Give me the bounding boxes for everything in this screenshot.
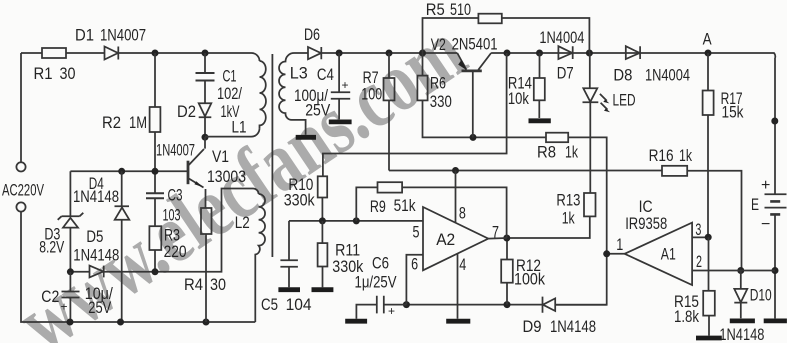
svg-text:R9: R9 xyxy=(370,197,386,216)
resistor R7 xyxy=(388,53,390,78)
svg-text:330: 330 xyxy=(430,92,452,111)
diode D4 xyxy=(115,171,130,322)
svg-text:6: 6 xyxy=(411,255,418,274)
capacitor C5 xyxy=(280,221,298,287)
svg-text:L1: L1 xyxy=(232,118,247,137)
svg-text:+: + xyxy=(342,78,349,92)
resistor R12 xyxy=(506,238,508,260)
op-amp A2 xyxy=(423,207,488,270)
resistor R11 xyxy=(321,221,323,243)
svg-text:D8: D8 xyxy=(613,65,632,84)
transistor V1 xyxy=(187,161,190,185)
diode D8 xyxy=(626,46,640,59)
svg-text:220: 220 xyxy=(164,242,187,261)
svg-text:D2: D2 xyxy=(177,102,196,121)
node junction battery/pin2 xyxy=(772,267,779,274)
svg-text:5: 5 xyxy=(413,223,420,242)
svg-text:2: 2 xyxy=(696,252,702,271)
ground R15 xyxy=(696,336,722,341)
svg-text:−: − xyxy=(761,216,770,233)
svg-text:+: + xyxy=(761,177,770,194)
svg-text:R1: R1 xyxy=(34,64,53,83)
wire R17 to pin3 xyxy=(707,115,709,237)
svg-text:IR9358: IR9358 xyxy=(625,214,667,233)
LED arrows xyxy=(600,94,608,110)
svg-text:30: 30 xyxy=(210,275,226,294)
wire D5 net y271.8 xyxy=(70,189,258,272)
node junction top rail x155 xyxy=(152,50,159,57)
ground R11 xyxy=(312,287,334,292)
svg-text:1N4004: 1N4004 xyxy=(539,28,584,47)
svg-text:R5: R5 xyxy=(426,0,445,19)
resistor R3 xyxy=(149,226,161,250)
svg-text:R16: R16 xyxy=(649,146,674,165)
svg-text:E: E xyxy=(751,195,759,214)
resistor R15 xyxy=(708,237,710,291)
wire pin3 xyxy=(692,236,708,238)
node A junction xyxy=(705,50,712,57)
wire B: R10 top to pin7 vertical xyxy=(323,53,507,176)
node junction pin2/D10 xyxy=(737,267,744,274)
svg-text:13003: 13003 xyxy=(207,167,246,186)
wire D3 stem xyxy=(69,171,71,271)
ground A2 pin4 xyxy=(446,319,470,324)
capacitor C3 xyxy=(146,193,164,198)
svg-text:1μ/25V: 1μ/25V xyxy=(355,273,398,292)
svg-text:D10: D10 xyxy=(750,286,772,305)
wire lower terminal to bottom rail xyxy=(21,212,255,323)
ground L3 xyxy=(296,135,316,140)
svg-text:L3: L3 xyxy=(290,64,308,83)
resistor R2 xyxy=(150,107,161,132)
node junction C4 top xyxy=(336,50,343,57)
ground C4 xyxy=(329,120,352,125)
wire C: R7 bottom long net y170.5 xyxy=(389,100,742,270)
resistor R5 xyxy=(423,18,479,53)
svg-text:25V: 25V xyxy=(88,298,112,317)
svg-text:R2: R2 xyxy=(102,113,121,132)
svg-text:D6: D6 xyxy=(304,25,320,44)
ground battery xyxy=(764,318,787,323)
svg-text:1N4148: 1N4148 xyxy=(550,317,596,336)
svg-text:LED: LED xyxy=(613,91,636,110)
inductor L2 winding xyxy=(255,194,265,322)
inductor L3 winding xyxy=(279,53,306,135)
resistor R14 xyxy=(539,53,541,78)
svg-text:330k: 330k xyxy=(284,191,315,210)
svg-text:C4: C4 xyxy=(317,65,334,84)
svg-text:V1: V1 xyxy=(212,147,229,166)
svg-text:C2: C2 xyxy=(41,287,59,306)
svg-text:A1: A1 xyxy=(661,245,676,264)
resistor R1 xyxy=(42,48,66,58)
node junction C6/pin6 xyxy=(403,301,410,308)
node junction R14 top xyxy=(536,50,543,57)
svg-text:1N4148: 1N4148 xyxy=(73,187,119,206)
wire pin8 stub xyxy=(455,171,457,223)
wire A1 output xyxy=(607,253,625,255)
resistor R16 xyxy=(662,166,687,176)
svg-text:AC220V: AC220V xyxy=(2,181,44,200)
svg-text:C5: C5 xyxy=(261,295,278,314)
svg-text:D5: D5 xyxy=(86,227,103,246)
wire L3 to D6 xyxy=(294,52,308,54)
terminal circle lower xyxy=(16,202,25,211)
resistor R10 xyxy=(318,176,328,197)
svg-text:+: + xyxy=(388,304,395,318)
wire pin6 xyxy=(406,255,423,305)
diode D9 xyxy=(543,297,556,313)
svg-text:V2: V2 xyxy=(431,35,446,54)
svg-text:R4: R4 xyxy=(184,275,203,294)
wire pin4 stub xyxy=(457,254,459,319)
resistor R13 xyxy=(584,193,596,216)
zener D3 xyxy=(58,213,84,220)
svg-text:1k: 1k xyxy=(562,209,575,228)
svg-text:30: 30 xyxy=(60,64,76,83)
wire C1/D2 chain xyxy=(204,53,206,137)
wire D1 to L1 top xyxy=(155,53,260,61)
svg-text:1M: 1M xyxy=(129,113,147,132)
svg-text:102/: 102/ xyxy=(217,84,242,103)
svg-text:100k: 100k xyxy=(514,269,545,288)
svg-text:8.2V: 8.2V xyxy=(39,238,64,257)
node junction C2 bottom xyxy=(67,319,74,326)
wire R13 bottom to pin7 net xyxy=(507,216,590,238)
node junction R6/R5/V2e xyxy=(419,50,426,57)
node junction V2 base xyxy=(470,134,477,141)
svg-text:1N4148: 1N4148 xyxy=(719,325,764,343)
svg-text:1.8k: 1.8k xyxy=(674,307,699,326)
svg-text:L2: L2 xyxy=(235,213,250,232)
svg-text:C3: C3 xyxy=(168,186,183,205)
diode D1 xyxy=(105,47,156,60)
ground R14 xyxy=(529,118,551,123)
wire pin2 xyxy=(692,270,775,272)
transistor V1 emitter arrow xyxy=(194,181,202,187)
svg-text:1: 1 xyxy=(616,235,623,254)
node junction R4 bottom xyxy=(203,319,210,326)
terminal circle upper xyxy=(16,162,25,171)
svg-text:510: 510 xyxy=(450,0,471,19)
ground C5 xyxy=(278,287,300,292)
svg-text:+: + xyxy=(61,300,68,314)
node dot on right wire xyxy=(771,118,778,125)
diode D7 xyxy=(558,46,572,59)
svg-text:D7: D7 xyxy=(557,64,574,83)
capacitor C4 xyxy=(331,53,350,119)
svg-text:D1: D1 xyxy=(75,26,94,45)
svg-text:1N4007: 1N4007 xyxy=(100,26,146,45)
op-amp A1 xyxy=(625,223,693,285)
wire LED to R13 xyxy=(589,102,591,193)
svg-text:1N4004: 1N4004 xyxy=(645,65,690,84)
diode D5 xyxy=(90,266,104,278)
wire base net y171 xyxy=(70,170,187,172)
node junction R3 bottom xyxy=(152,268,159,275)
node junction V2 collector xyxy=(504,50,511,57)
svg-text:51k: 51k xyxy=(394,196,416,215)
node junction C3 top xyxy=(152,168,159,175)
node junction pin8 stub xyxy=(452,167,459,174)
wire pin5 net y220.9 xyxy=(289,220,423,222)
resistor R9 xyxy=(356,187,377,221)
wire R4 bottom xyxy=(205,234,207,322)
svg-text:1k: 1k xyxy=(679,146,692,165)
svg-text:15k: 15k xyxy=(722,103,744,122)
svg-text:8: 8 xyxy=(459,204,466,223)
svg-text:10k: 10k xyxy=(508,89,529,108)
capacitor C2 xyxy=(62,272,80,322)
capacitor C1 xyxy=(196,73,215,81)
wire top-left rail xyxy=(21,52,105,54)
node junction top rail x205 xyxy=(202,50,209,57)
transistor V2 xyxy=(462,70,482,73)
svg-text:3: 3 xyxy=(695,220,701,239)
node junction D4 bottom xyxy=(117,319,124,326)
svg-text:25V: 25V xyxy=(305,101,331,120)
ground D10 xyxy=(730,318,755,323)
LED V xyxy=(583,53,599,102)
node junction D4 top xyxy=(118,168,125,175)
battery E xyxy=(765,194,787,207)
svg-text:R6: R6 xyxy=(430,74,446,93)
wire R2 chain down xyxy=(154,53,156,272)
resistor R17 xyxy=(707,53,709,91)
wire D net y304.7 xyxy=(406,304,606,306)
node junction R9 left xyxy=(353,217,360,224)
resistor R4 xyxy=(201,208,212,234)
svg-text:1N4007: 1N4007 xyxy=(156,141,195,160)
svg-text:C1: C1 xyxy=(223,67,237,86)
svg-text:1N4148: 1N4148 xyxy=(73,246,119,265)
ground C6 xyxy=(345,319,367,324)
inductor L1 winding xyxy=(260,61,266,128)
svg-text:7: 7 xyxy=(492,223,499,242)
wire A: R6 bottom net y137.4 xyxy=(423,100,607,304)
transformer core xyxy=(271,54,273,257)
svg-text:2N5401: 2N5401 xyxy=(452,35,498,54)
resistor R6 xyxy=(422,53,424,76)
node junction D3/C2 xyxy=(67,268,74,275)
svg-text:100: 100 xyxy=(361,85,382,104)
svg-text:A: A xyxy=(703,30,713,49)
node junction A1 out xyxy=(603,250,610,257)
svg-text:C6: C6 xyxy=(372,254,389,273)
svg-text:104: 104 xyxy=(286,295,312,314)
diode D2 xyxy=(199,103,212,117)
svg-text:1k: 1k xyxy=(565,143,578,162)
svg-text:103: 103 xyxy=(163,206,181,225)
node junction R7 top xyxy=(386,50,393,57)
svg-text:D9: D9 xyxy=(523,317,542,336)
capacitor C6 xyxy=(356,296,406,319)
wire main rail y53 xyxy=(321,53,775,194)
node junction pin7 xyxy=(503,235,510,242)
resistor R8 xyxy=(546,133,568,143)
node junction R12 bottom xyxy=(504,301,511,308)
diode D10 xyxy=(734,271,747,319)
wire L1 bottom xyxy=(205,128,260,136)
svg-text:R8: R8 xyxy=(537,143,556,162)
node junction R10/R11 xyxy=(319,217,326,224)
wire pin7 from apex xyxy=(488,237,507,240)
node junction D2/V1/L1 xyxy=(202,134,209,141)
node junction R5/LED xyxy=(586,50,593,57)
svg-text:4: 4 xyxy=(459,255,466,274)
node junction pin3 xyxy=(705,234,712,241)
wire left vertical to terminal xyxy=(20,53,22,162)
svg-text:A2: A2 xyxy=(436,230,455,249)
svg-text:R13: R13 xyxy=(556,191,580,210)
diode D6 xyxy=(308,47,321,59)
